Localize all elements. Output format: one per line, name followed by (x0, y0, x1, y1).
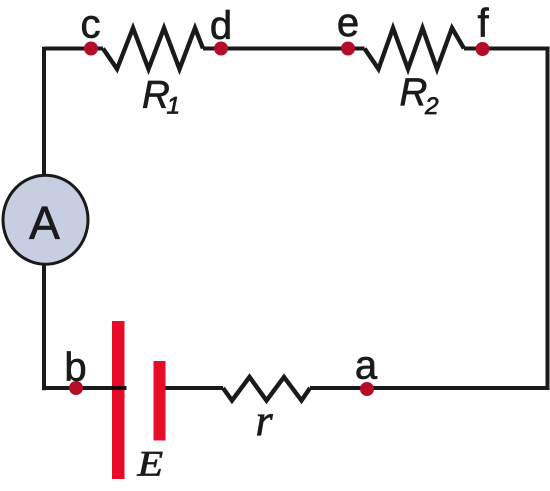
node f (476, 42, 490, 56)
wire: left vertical lower segment (ammeter to corner) (42, 262, 46, 390)
resistor R1 (103, 28, 203, 69)
svg-text:d: d (210, 4, 232, 48)
node e (341, 42, 355, 56)
svg-text:f: f (477, 2, 489, 46)
wire: right vertical segment (546, 47, 550, 391)
label R1 (142, 74, 180, 120)
label R2 (400, 71, 440, 120)
wire: bottom segment from battery to resistor r (166, 386, 224, 390)
node c (84, 42, 98, 56)
svg-text:2: 2 (424, 93, 439, 120)
wire: left vertical upper segment (corner to ammeter) (42, 47, 46, 178)
svg-text:c: c (81, 3, 101, 47)
node b (69, 381, 83, 395)
wire: top middle segment from R1 to R2 (203, 47, 365, 51)
wire: top-right horizontal segment from R2 to corner (464, 47, 548, 51)
svg-text:b: b (64, 346, 86, 390)
svg-text:1: 1 (167, 93, 181, 120)
wire: top-left horizontal segment from corner to R1 (44, 47, 103, 51)
battery long plate (positive) (112, 321, 125, 479)
wire: bottom-right segment from r through node a to corner (310, 386, 548, 390)
node a (360, 382, 374, 396)
battery short plate (negative) (154, 361, 166, 441)
svg-text:a: a (355, 344, 378, 388)
svg-text:e: e (337, 1, 359, 45)
svg-text:R: R (400, 71, 428, 114)
node d (214, 42, 228, 56)
resistor r (223, 377, 310, 401)
svg-text:r: r (256, 396, 274, 445)
svg-text:E: E (136, 445, 163, 484)
ammeter U1 circle (3, 175, 88, 264)
wire: bottom-left segment from corner through node b into battery (44, 386, 127, 390)
svg-text:A: A (29, 197, 60, 249)
resistor R2 (365, 28, 465, 69)
